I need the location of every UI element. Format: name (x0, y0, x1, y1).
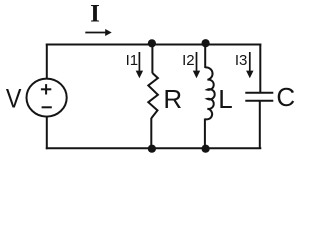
wire C bottom lead (259, 101, 261, 149)
voltage source V1 (26, 79, 66, 117)
svg-text:R: R (163, 84, 182, 114)
minus sign (42, 106, 52, 108)
plus sign (41, 84, 51, 94)
current arrow I (85, 29, 111, 36)
capacitor C (245, 93, 273, 101)
node bottom-L junction (202, 145, 210, 153)
svg-text:C: C (276, 82, 295, 112)
wire source top lead (46, 44, 48, 80)
node top-R junction (148, 39, 156, 47)
node bottom-R junction (148, 145, 156, 153)
wire R bottom lead (150, 118, 152, 149)
wire top rail (46, 44, 261, 46)
wire L bottom lead (204, 119, 206, 150)
wire L top lead (204, 44, 206, 69)
wire R top lead (151, 44, 153, 74)
svg-text:I1: I1 (126, 52, 139, 69)
svg-text:I2: I2 (182, 52, 195, 69)
wire C top lead (259, 44, 261, 93)
wire bottom rail (46, 147, 261, 149)
branch arrow I2 (193, 52, 200, 78)
branch arrow I3 (246, 52, 253, 78)
branch arrow I1 (136, 52, 143, 78)
resistor R (148, 73, 158, 118)
svg-text:I: I (90, 1, 100, 28)
svg-text:I3: I3 (235, 52, 248, 69)
svg-text:L: L (218, 84, 232, 114)
wire source bottom lead (46, 117, 48, 150)
node top-L junction (202, 39, 210, 47)
svg-text:V: V (6, 84, 22, 114)
inductor L (205, 67, 215, 119)
